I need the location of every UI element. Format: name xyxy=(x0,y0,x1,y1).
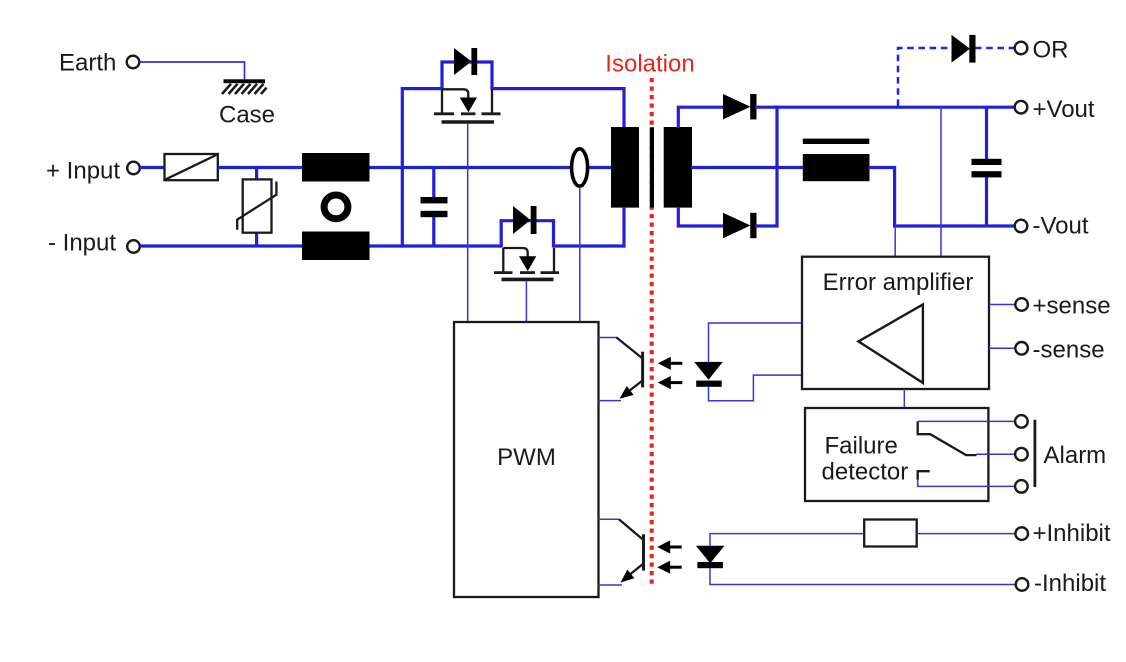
op-amp triangle xyxy=(858,305,923,383)
terminal alarm bottom xyxy=(1015,480,1028,493)
svg-text:Earth: Earth xyxy=(59,50,116,77)
alarm bracket xyxy=(1035,420,1106,487)
transformer T1 core xyxy=(650,127,654,207)
fuse F1 xyxy=(165,154,218,180)
input capacitor C1 branch wires xyxy=(432,168,435,247)
wire fuse to choke xyxy=(218,166,302,169)
wire varistor top branch xyxy=(255,168,258,181)
wire secondary top lead xyxy=(678,107,724,128)
isolation barrier dotted line xyxy=(650,78,654,588)
wire OC2 LED cathode to -Inhibit xyxy=(710,568,1016,585)
diode D4 rectifier bottom xyxy=(723,213,757,238)
mosfet Q1 xyxy=(434,89,501,122)
wire earth to case xyxy=(140,62,245,80)
optocoupler OC1 collector wire xyxy=(599,337,618,339)
svg-text:Failure: Failure xyxy=(825,433,898,460)
svg-text:-Inhibit: -Inhibit xyxy=(1034,570,1106,597)
terminal OR xyxy=(1015,37,1069,64)
wire primary bottom return xyxy=(622,207,625,248)
optocoupler OC1 phototransistor xyxy=(616,338,643,404)
svg-text:PWM: PWM xyxy=(497,444,556,471)
terminal +Vout xyxy=(1015,96,1095,123)
wire bus vertical node A xyxy=(401,87,404,248)
svg-text:Alarm: Alarm xyxy=(1044,442,1107,469)
wire +sense xyxy=(989,304,1015,306)
wire OC1 LED anode to error amplifier xyxy=(709,323,803,363)
optocoupler OC2 phototransistor xyxy=(617,519,644,587)
wire - rail choke to Q2 cell xyxy=(370,244,502,247)
terminal -Inhibit xyxy=(1016,570,1107,597)
wire resistor to +Inhibit xyxy=(917,533,1016,535)
inductor L2 bar xyxy=(803,139,870,144)
transformer T1 primary bar xyxy=(611,127,639,208)
wire freewheel junction vertical xyxy=(755,106,777,226)
common mode choke L1 top winding xyxy=(302,153,370,182)
wire OC1 LED cathode to error amplifier xyxy=(709,375,803,401)
diode D1 across Q1 xyxy=(454,48,477,75)
optocoupler OC1 light arrows xyxy=(658,357,683,390)
wire OC2 LED anode to inhibit resistor xyxy=(710,534,865,547)
terminal alarm middle xyxy=(1015,448,1028,461)
common mode choke L1 core ring xyxy=(324,195,348,219)
terminal alarm top xyxy=(1015,415,1028,428)
output capacitor C2 plates xyxy=(972,159,1002,178)
svg-text:Error amplifier: Error amplifier xyxy=(823,269,974,296)
terminal +Inhibit xyxy=(1015,520,1110,547)
svg-text:Case: Case xyxy=(219,102,275,129)
svg-text:+ Input: + Input xyxy=(46,158,120,185)
diode D2 across Q2 xyxy=(513,206,537,234)
terminal + Input xyxy=(46,158,140,185)
varistor RV1 xyxy=(237,179,276,232)
svg-text:+Vout: +Vout xyxy=(1033,96,1095,123)
wire +V sense to error amplifier xyxy=(940,107,942,257)
svg-text:-sense: -sense xyxy=(1033,336,1105,363)
chassis ground Case xyxy=(219,79,275,128)
common mode choke L1 bottom winding xyxy=(302,232,370,261)
error amplifier box U2 xyxy=(802,257,989,389)
wire Q1 diode loop xyxy=(442,62,492,90)
wire inductor to -Vout rail xyxy=(869,168,1016,227)
wire + rail choke to transformer xyxy=(370,166,573,169)
svg-text:OR: OR xyxy=(1033,37,1069,64)
terminal Earth xyxy=(59,50,139,77)
wire center tap to inductor xyxy=(691,166,804,169)
wire -V sense to error amplifier xyxy=(894,226,896,257)
wire gate Q1 to PWM xyxy=(467,124,469,322)
svg-text:- Input: - Input xyxy=(48,230,116,257)
terminal - Input xyxy=(48,230,140,257)
wire Q2 diode loop xyxy=(501,221,553,248)
svg-text:+Inhibit: +Inhibit xyxy=(1033,520,1111,547)
optocoupler OC2 emitter wire xyxy=(599,584,623,586)
wire gate Q2 to PWM xyxy=(525,281,527,322)
optocoupler OC2 light arrows xyxy=(657,540,682,573)
terminal -sense xyxy=(1015,336,1104,363)
svg-text:Isolation: Isolation xyxy=(605,51,694,78)
input capacitor C1 plates xyxy=(421,197,448,217)
wire upper rail to Q1 xyxy=(402,87,443,90)
svg-text:detector: detector xyxy=(822,459,909,486)
PWM box U1 xyxy=(454,322,599,597)
terminal -Vout xyxy=(1015,213,1089,240)
output capacitor C2 wires xyxy=(985,107,988,226)
svg-text:+sense: +sense xyxy=(1033,293,1111,320)
wire CT to PWM xyxy=(579,187,581,323)
optocoupler OC1 LED xyxy=(694,362,723,387)
wire varistor bottom branch xyxy=(255,232,258,246)
mosfet Q2 xyxy=(494,248,559,279)
relay contact xyxy=(918,421,977,480)
current sense ellipse CT xyxy=(572,149,588,186)
inductor L2 body xyxy=(803,154,870,181)
diode D5 ORing xyxy=(952,35,976,63)
transformer T1 secondary bar xyxy=(664,127,692,208)
diode D3 rectifier top xyxy=(723,94,757,119)
wire OR dashed link xyxy=(898,48,1014,106)
terminal +sense xyxy=(1015,293,1110,320)
wire - rail Q2 cell to primary return xyxy=(554,244,626,247)
wire + rail ellipse to primary xyxy=(587,166,612,169)
wire -sense xyxy=(989,347,1015,349)
wire secondary bottom lead xyxy=(678,207,724,226)
wire error amplifier to failure detector xyxy=(903,389,905,408)
optocoupler OC2 LED xyxy=(696,546,725,568)
optocoupler OC1 emitter wire xyxy=(599,400,622,402)
wire alarm contact middle xyxy=(977,453,1016,455)
wire top rail to +Vout xyxy=(755,106,1015,109)
svg-text:-Vout: -Vout xyxy=(1033,213,1089,240)
wire +input to fuse xyxy=(140,166,165,169)
wire Q1 to transformer primary top xyxy=(490,89,624,128)
wire alarm contact top xyxy=(918,420,1015,422)
wire -input to choke xyxy=(140,244,302,247)
wire alarm contact bottom xyxy=(918,479,1015,486)
resistor R1 inhibit xyxy=(864,520,917,547)
failure detector box U3 xyxy=(805,408,988,501)
optocoupler OC2 collector wire xyxy=(599,518,620,520)
